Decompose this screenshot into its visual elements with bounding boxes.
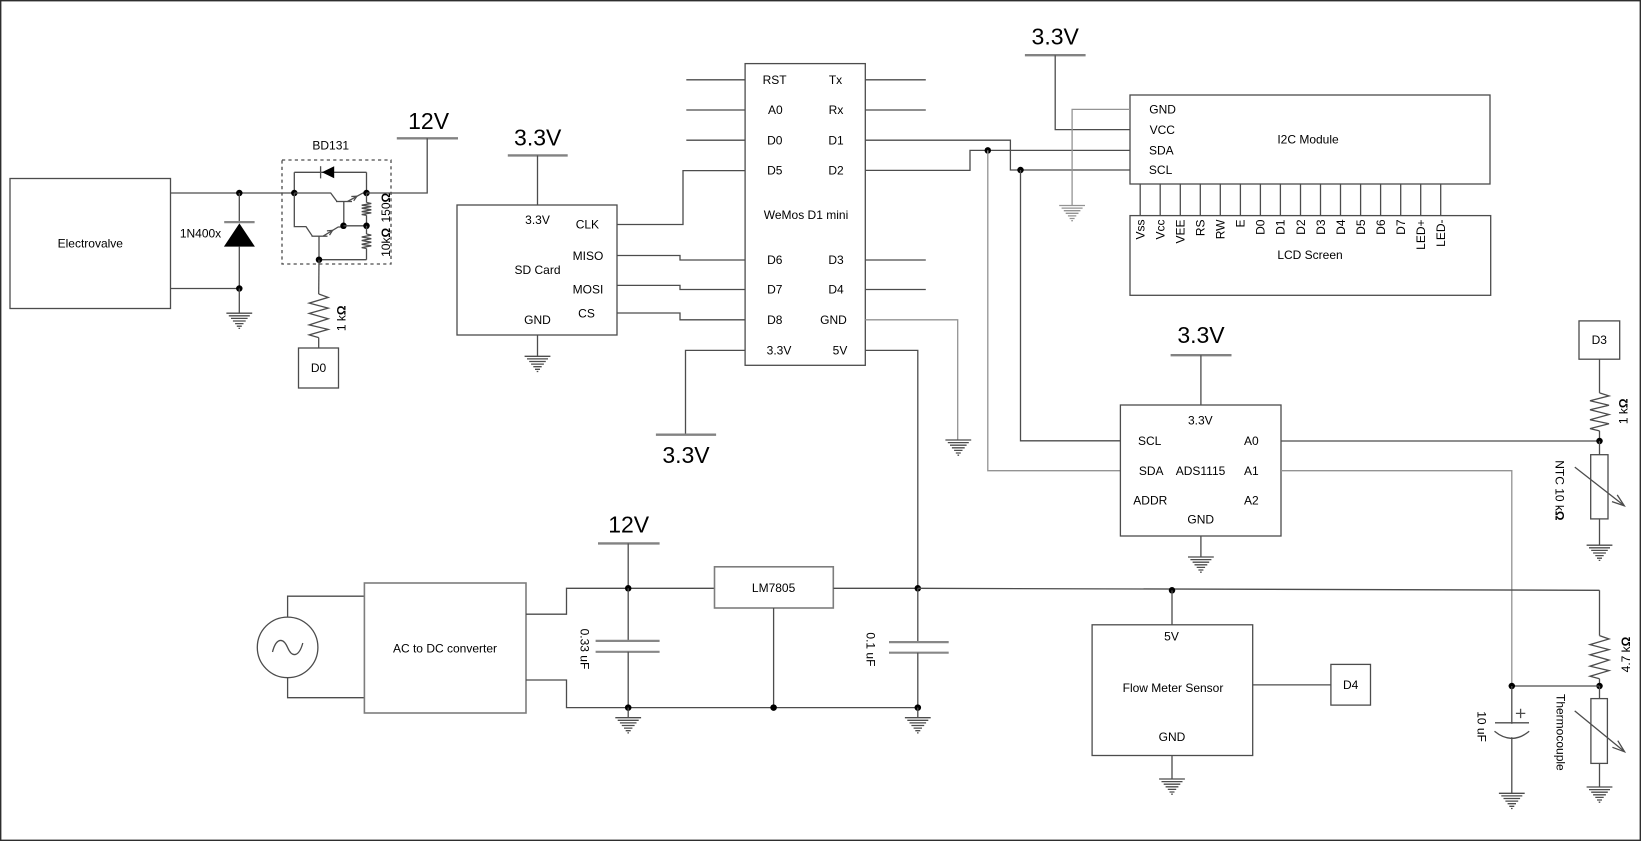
svg-text:MOSI: MOSI [573,283,604,297]
svg-text:BD131: BD131 [312,138,349,152]
svg-text:SCL: SCL [1138,434,1162,448]
resistor 1 kOhm (base) [309,294,328,338]
BD131 dashed package outline [282,160,391,264]
wire to ground under 0.33uF [627,708,629,718]
svg-text:Vcc: Vcc [1154,220,1168,240]
ground under ADS1115 [1188,557,1214,572]
svg-text:D7: D7 [1394,219,1408,235]
wire 3.3V to ADS1115 [1200,355,1202,405]
svg-text:RS: RS [1194,220,1208,237]
wire AC source top [288,596,365,617]
node SCL branch [1017,167,1024,174]
LCD pin wire D7 [1400,184,1402,216]
ground for I2C module (gray) [1059,206,1085,221]
ground under SD card [525,356,551,371]
LCD pin wire RS [1199,184,1201,216]
svg-text:D8: D8 [767,313,783,327]
wire Electrovalve- to diode bottom [171,288,240,290]
svg-text:3.3V: 3.3V [514,124,562,150]
svg-text:Electrovalve: Electrovalve [58,237,124,251]
svg-text:10 uF: 10 uF [1475,711,1489,742]
svg-text:D2: D2 [828,164,844,178]
node collector rail right [363,190,370,197]
wire thermocouple to ground [1599,763,1601,787]
wire converter + output [526,588,715,614]
wire AC source bottom [288,678,365,698]
svg-text:D3: D3 [1314,219,1328,235]
ground under flow meter [1159,779,1185,794]
wire 4.7k to thermocouple node [1599,679,1601,686]
thermistor NTC 10k body [1591,455,1608,519]
svg-text:VEE: VEE [1174,220,1188,244]
LCD pin wire LED- [1440,184,1442,216]
wire 10uF to ground [1511,737,1513,793]
svg-text:D0: D0 [767,133,783,147]
diode 1N400x [238,193,240,222]
svg-text:LED+: LED+ [1414,220,1428,250]
svg-text:E: E [1234,220,1248,228]
node 10uF junction [1509,683,1516,690]
svg-text:LM7805: LM7805 [752,581,796,595]
stub wire D0 [686,139,745,141]
wire BD131 to 1k resistor [318,260,320,294]
svg-text:CS: CS [578,307,595,321]
power 3.3V bar above SD card [508,154,568,156]
svg-text:3.3V: 3.3V [767,344,792,358]
arrow on Q1 emitter [351,196,357,201]
svg-text:LCD Screen: LCD Screen [1277,248,1342,262]
node Q1-collector / Q2-emitter junction [340,223,347,230]
AC source [257,617,318,678]
transistor Q1 (upper) of BD131 [294,193,337,202]
ground for WeMos GND [945,440,971,455]
svg-text:NTC 10 kΩ: NTC 10 kΩ [1553,460,1567,521]
svg-text:D4: D4 [1343,678,1359,692]
svg-text:D2: D2 [1294,219,1308,235]
svg-text:D0: D0 [1254,219,1268,235]
node diode bottom junction [236,285,243,292]
svg-text:GND: GND [1149,103,1176,117]
capacitor 0.33 uF [627,588,629,641]
svg-text:D0: D0 [311,361,327,375]
block LM7805 [715,567,834,608]
node LM7805 GND junction [770,704,777,711]
wire D1 to I2C SCL [865,140,1130,170]
pin box D4 [1331,664,1371,705]
wire 5V rail corner down to 4.7k [1599,590,1601,635]
wire to ground under diode [238,289,240,314]
wire D2 to I2C SDA [865,150,1130,170]
pin box D0 [299,348,339,388]
LCD pin wire LED+ [1420,184,1422,216]
svg-text:AC to DC converter: AC to DC converter [393,642,497,656]
capacitor 0.1 uF [917,588,919,642]
LCD pin wire E [1239,184,1241,216]
power 3.3V bar above ADS1115 [1171,354,1232,356]
thermocouple diagonal arrow [1575,711,1625,752]
svg-text:D4: D4 [828,283,844,297]
LCD pin wire D0 [1259,184,1261,216]
svg-text:A1: A1 [1244,464,1259,478]
ground under 10uF [1499,793,1525,808]
svg-text:SD Card: SD Card [514,263,560,277]
LCD pin wire VEE [1179,184,1181,216]
wire 3.3V to SD card [537,155,539,205]
wire Electrovalve+ to diode node [171,192,240,194]
wire resistor to NTC node [1599,431,1601,441]
power 3.3V bar below WeMos (inverted) [656,434,716,436]
svg-text:A0: A0 [768,103,783,117]
ground under NTC [1587,545,1613,560]
resistor 4.7 kOhm [1590,636,1609,679]
svg-text:D7: D7 [767,283,783,297]
svg-text:10kΩ: 10kΩ [379,228,393,257]
wire LM7805 GND [773,608,775,708]
svg-text:LED-: LED- [1434,220,1448,247]
svg-text:SCL: SCL [1149,163,1173,177]
wire SCL branch down to ADS1115 [1021,170,1121,441]
svg-text:0.33 uF: 0.33 uF [578,629,592,670]
ground under 0.1uF [905,718,931,733]
wire WeMos GND (gray) [865,320,957,440]
svg-text:3.3V: 3.3V [1032,24,1080,50]
wire node to NTC [1599,441,1601,455]
wire 5V to flow meter [1171,590,1173,625]
svg-text:RW: RW [1214,219,1228,239]
node NTC divider junction [1596,438,1603,445]
svg-text:SDA: SDA [1149,144,1174,158]
stub wire D4 [865,289,926,291]
svg-text:MISO: MISO [573,249,604,263]
svg-text:3.3V: 3.3V [1177,322,1225,348]
wire diode left leg [293,172,295,193]
node diode top junction [236,190,243,197]
node thermocouple junction [1596,683,1603,690]
wire junction to resistor column [344,225,367,227]
svg-text:3.3V: 3.3V [1188,413,1213,427]
power 12V top bar [397,137,458,139]
internal diode of BD131 [294,171,366,173]
wire SDA branch down to ADS1115 (gray) [988,150,1121,470]
svg-text:GND: GND [524,313,551,327]
stub wire Tx [865,79,926,81]
block ADS1115 [1120,405,1281,536]
block Flow Meter Sensor [1092,625,1253,756]
plus sign of 10uF [1516,709,1525,718]
wire BD131 emitter bottom rail [319,259,367,261]
svg-text:D5: D5 [767,164,783,178]
node 12V rail junction [625,585,632,592]
block Electrovalve [10,179,171,309]
svg-text:D6: D6 [1374,219,1388,235]
node SDA branch [985,147,992,154]
svg-text:Thermocouple: Thermocouple [1554,694,1568,771]
stub wire Rx [865,109,926,111]
wire to ground under 0.1uF [917,708,919,718]
svg-text:0.1 uF: 0.1 uF [864,632,878,666]
svg-text:VCC: VCC [1150,123,1176,137]
svg-text:GND: GND [1159,730,1186,744]
block SD Card [457,205,617,335]
ground under 0.33uF [615,718,641,733]
svg-text:WeMos D1 mini: WeMos D1 mini [764,208,848,222]
svg-text:150Ω: 150Ω [379,192,393,222]
LCD pin wire D6 [1380,184,1382,216]
LCD pin wire Vss [1139,184,1141,216]
svg-text:1 kΩ: 1 kΩ [1617,398,1631,424]
svg-text:D1: D1 [1274,219,1288,235]
svg-text:4.7 kΩ: 4.7 kΩ [1619,636,1633,672]
wire SD GND to ground [537,335,539,356]
stub wire RST [686,79,745,81]
LCD pin wire D4 [1340,184,1342,216]
svg-text:5V: 5V [833,344,848,358]
wire 12V bar to rail [627,543,629,588]
wire 3.3V to I2C VCC [1055,55,1130,129]
thermocouple body [1591,699,1608,764]
svg-text:1N400x: 1N400x [180,227,221,241]
wire CLK to WeMos D5 [617,171,745,225]
wire junction to 10uF node [1512,685,1600,687]
wire converter - output [526,680,918,708]
wire diode node to BD131 base [239,192,294,194]
stub wire D3 [865,259,926,261]
wire LM7805 output rail [833,587,918,589]
node 0.33uF bottom junction [625,704,632,711]
svg-text:D3: D3 [1592,333,1608,347]
transistor Q2 (lower) of BD131 [294,193,312,236]
block WeMos D1 mini [745,64,865,366]
svg-text:CLK: CLK [576,218,599,232]
svg-text:12V: 12V [608,512,650,538]
svg-text:12V: 12V [408,108,450,134]
resistor 1 kOhm (thermistor divider) [1590,393,1609,431]
wire WeMos 5V down to LM7805 output rail [865,350,918,588]
LCD pin wire RW [1219,184,1221,216]
capacitor 10 uF polarized [1511,686,1513,724]
wire diode right leg [366,172,368,193]
svg-text:D1: D1 [828,133,844,147]
wire NTC to ground [1599,519,1601,545]
svg-text:5V: 5V [1164,629,1179,643]
wire MISO to WeMos D6 [617,256,745,261]
wire flow meter signal to D4 [1253,684,1331,686]
svg-text:Tx: Tx [829,73,842,87]
block LCD Screen [1130,216,1491,296]
svg-text:D5: D5 [1354,219,1368,235]
svg-text:Rx: Rx [829,103,844,117]
sine wave inside AC source [273,640,303,654]
svg-text:3.3V: 3.3V [525,213,550,227]
wire A1 to thermocouple node (gray) [1281,471,1512,686]
ground under thermocouple [1587,787,1613,802]
svg-text:ADS1115: ADS1115 [1176,464,1226,478]
wire A0 to thermistor divider [1281,440,1600,442]
LCD pin wire D3 [1320,184,1322,216]
stub wire A0 [686,109,745,111]
svg-text:D3: D3 [828,253,844,267]
node 5V rail junction [915,585,922,592]
node resistor mid junction [363,223,370,230]
svg-text:A0: A0 [1244,434,1259,448]
arrow on Q2 emitter [327,230,333,235]
block I2C Module [1130,95,1490,184]
svg-text:Flow Meter Sensor: Flow Meter Sensor [1123,681,1224,695]
svg-text:I2C Module: I2C Module [1277,133,1339,147]
wire MOSI to WeMos D7 [617,285,745,289]
svg-text:D6: D6 [767,253,783,267]
svg-text:GND: GND [820,313,847,327]
wire ADS1115 GND to ground [1200,536,1202,557]
NTC diagonal arrow [1575,467,1625,506]
ground under 1N400x [226,313,252,328]
svg-text:D4: D4 [1334,219,1348,235]
svg-text:GND: GND [1187,513,1214,527]
pin box D3 [1579,321,1620,359]
svg-text:A2: A2 [1244,494,1259,508]
svg-text:1 kΩ: 1 kΩ [334,305,348,331]
svg-text:RST: RST [763,73,788,87]
node emitter bottom junction [316,256,323,263]
node BD131 base input [291,190,298,197]
power 12V bar bottom [598,542,660,544]
svg-text:SDA: SDA [1139,464,1164,478]
wire I2C GND to ground (gray) [1072,109,1130,205]
LCD pin wire D2 [1300,184,1302,216]
svg-text:Vss: Vss [1134,220,1148,240]
wire CS to WeMos D8 [617,313,745,320]
LCD pin wire D1 [1279,184,1281,216]
block AC to DC converter [364,583,526,713]
svg-text:3.3V: 3.3V [662,442,710,468]
resistor 10k Ohm inside BD131 [362,234,372,249]
wire resistor to D0 pin box [318,338,320,348]
resistor 150 Ohm inside BD131 [366,193,368,203]
wire 5V rail to flow meter and divider [918,588,1600,590]
LCD pin wire Vcc [1159,184,1161,216]
wire 12V to BD131 collector [367,138,428,193]
node flow meter 5V tap [1169,587,1176,594]
node 0.1uF bottom junction [915,704,922,711]
LCD pin wire D5 [1360,184,1362,216]
wire flow meter GND [1171,756,1173,780]
wire WeMos 3.3V pin to rail [686,350,746,434]
wire node to thermocouple [1599,686,1601,699]
wire D3 to 1k resistor [1599,359,1601,393]
svg-text:ADDR: ADDR [1133,494,1167,508]
power 3.3V bar above I2C module [1025,54,1086,56]
